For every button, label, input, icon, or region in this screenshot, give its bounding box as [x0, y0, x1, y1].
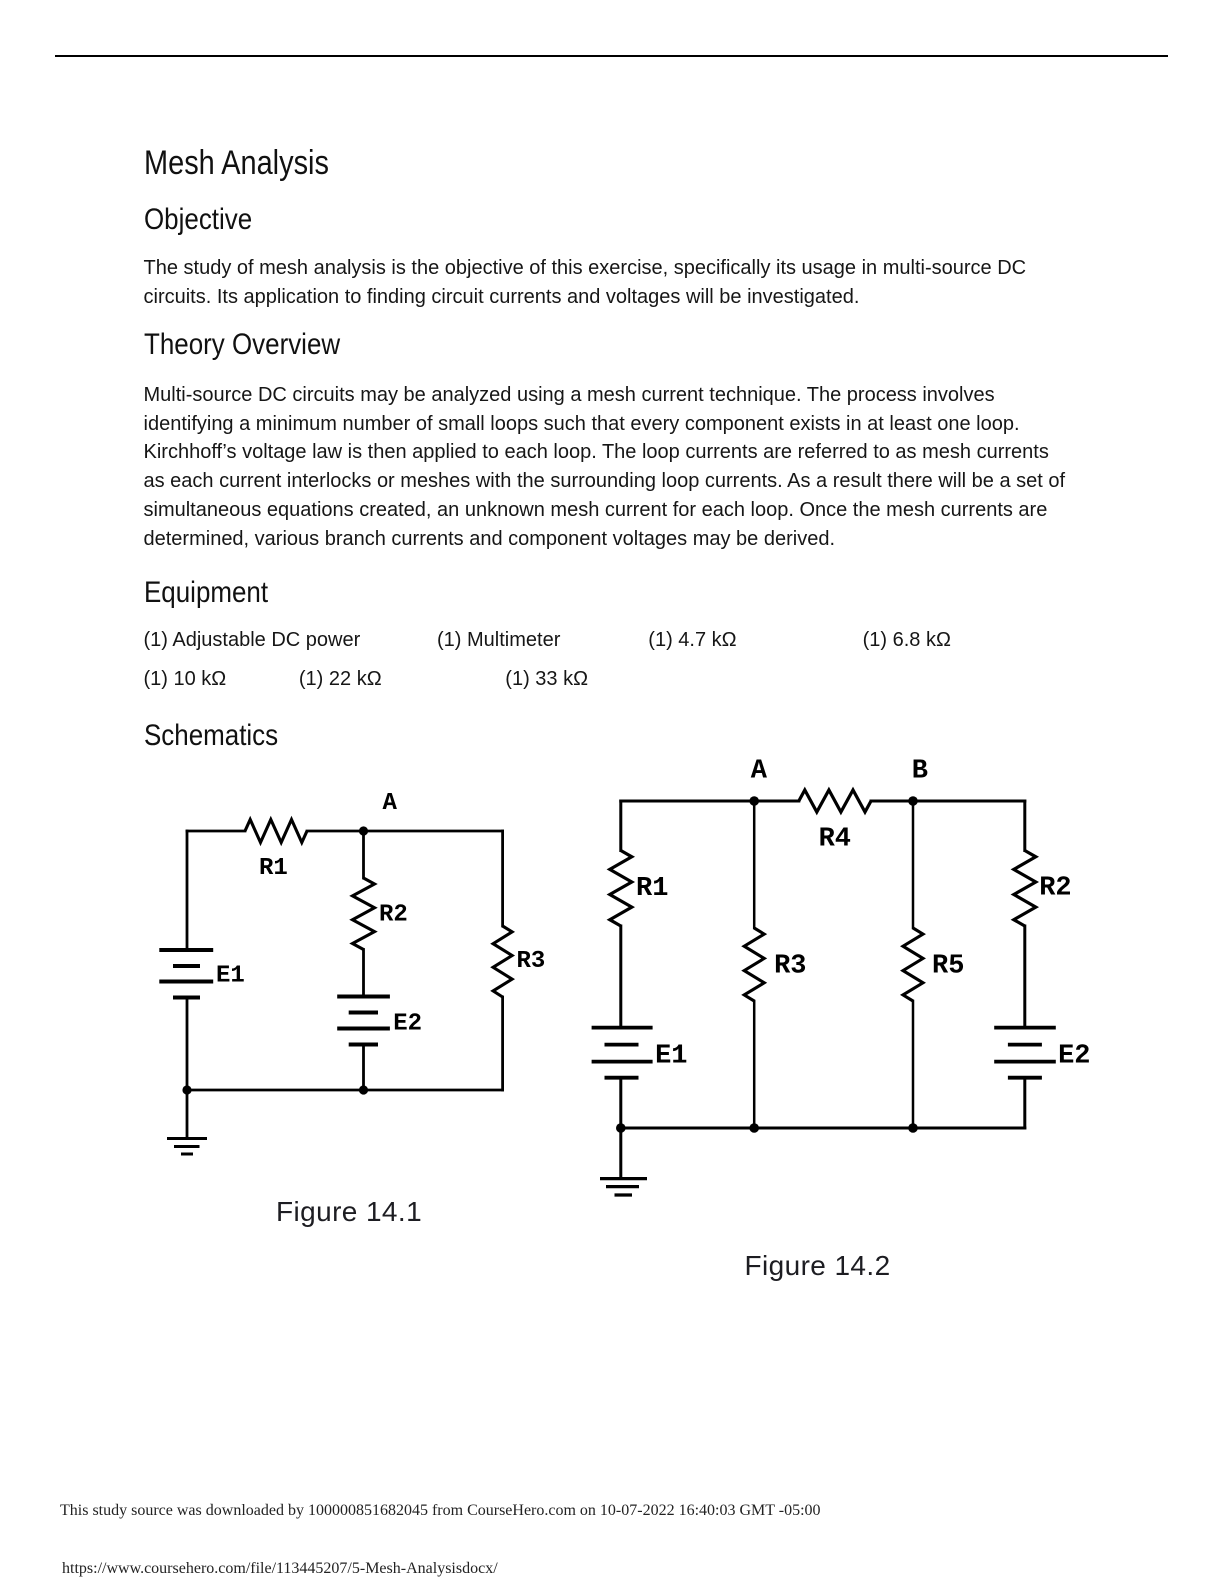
resistor R2 zigzag	[1014, 851, 1036, 927]
paragraph theory	[144, 381, 1066, 554]
svg-text:R2: R2	[379, 901, 408, 928]
title	[144, 146, 329, 180]
resistor R1 zigzag	[610, 851, 632, 927]
schematic Figure 14.1	[140, 770, 570, 1170]
caption Figure 14.1	[276, 1198, 422, 1226]
svg-text:A: A	[383, 790, 398, 817]
resistor R2 zigzag	[353, 878, 375, 950]
resistor R5 zigzag	[903, 928, 923, 1001]
svg-text:R3: R3	[517, 948, 546, 975]
ground symbol	[600, 1179, 647, 1195]
wire left vertical top (E1 plus lead)	[186, 831, 189, 950]
heading Schematics	[144, 721, 278, 751]
wire node B to right corner	[913, 800, 1025, 803]
svg-text:B: B	[912, 757, 928, 787]
junction dot bottom middle	[359, 1085, 368, 1094]
wire branch B upper	[912, 801, 915, 928]
equipment row 1	[144, 630, 361, 650]
wire ground lead	[186, 1090, 189, 1138]
wire top rail left (corner to node A)	[621, 800, 754, 803]
ground symbol	[167, 1139, 207, 1155]
wire right vertical to R2	[1023, 801, 1026, 851]
caption Figure 14.2	[745, 1252, 891, 1280]
heading Theory Overview	[144, 330, 340, 360]
battery E1 symbol	[592, 1028, 653, 1078]
resistor R4 zigzag	[799, 790, 871, 812]
svg-text:E1: E1	[655, 1041, 687, 1071]
wire right vertical lower (R3 to bottom)	[501, 997, 504, 1090]
svg-text:R4: R4	[819, 825, 851, 855]
svg-text:R1: R1	[259, 855, 288, 882]
junction dot bottom left	[182, 1085, 191, 1094]
wire R2 to E2	[1023, 926, 1026, 1028]
wire left vertical to R1	[619, 801, 622, 851]
svg-text:R2: R2	[1039, 874, 1071, 904]
wire R4 to node B	[871, 800, 913, 803]
resistor R3 zigzag	[744, 928, 764, 1001]
wire middle branch R2 to E2	[362, 950, 365, 997]
node A junction dot	[749, 796, 759, 806]
resistor R3 zigzag	[493, 926, 512, 997]
wire node A to R4	[754, 800, 799, 803]
wire R1 to E1	[619, 926, 622, 1028]
svg-text:R3: R3	[774, 951, 806, 981]
battery E2 symbol	[337, 997, 390, 1045]
node B junction dot	[908, 796, 918, 806]
equipment row 2	[144, 669, 227, 689]
wire right vertical upper (to R3)	[501, 831, 504, 926]
wire ground lead	[619, 1128, 622, 1177]
wire bottom rail	[621, 1127, 1025, 1130]
svg-text:E2: E2	[393, 1010, 422, 1037]
footer line 2	[62, 1561, 498, 1577]
footer line 1	[60, 1503, 821, 1519]
battery E2 symbol	[994, 1028, 1056, 1078]
resistor R1 zigzag	[245, 820, 307, 843]
wire middle branch E2 to bottom	[362, 1045, 365, 1091]
top rule	[55, 55, 1168, 57]
wire branch A upper	[753, 801, 756, 928]
svg-text:A: A	[751, 757, 768, 787]
svg-text:E2: E2	[1058, 1041, 1090, 1071]
paragraph objective	[144, 254, 1027, 312]
svg-text:E1: E1	[216, 963, 245, 990]
battery E1 symbol	[159, 950, 213, 998]
node A junction dot	[359, 826, 368, 835]
wire E2 to bottom rail	[1023, 1078, 1026, 1128]
svg-text:R5: R5	[932, 951, 964, 981]
junction dot bottom A	[749, 1123, 759, 1133]
wire E1 to bottom rail	[619, 1078, 622, 1128]
wire middle branch A to R2	[362, 831, 365, 878]
svg-text:R1: R1	[636, 874, 668, 904]
wire left vertical bottom (E1 minus lead)	[186, 998, 189, 1091]
wire top left segment	[187, 830, 245, 833]
wire bottom rail	[187, 1089, 503, 1092]
junction dot bottom B	[908, 1123, 918, 1133]
wire branch A lower	[753, 1001, 756, 1128]
heading Equipment	[144, 578, 268, 608]
schematic Figure 14.2	[580, 745, 1120, 1210]
wire top right segment (node A to right corner)	[307, 830, 503, 833]
junction dot bottom left	[616, 1123, 626, 1133]
heading Objective	[144, 205, 252, 235]
wire branch B lower	[912, 1001, 915, 1128]
